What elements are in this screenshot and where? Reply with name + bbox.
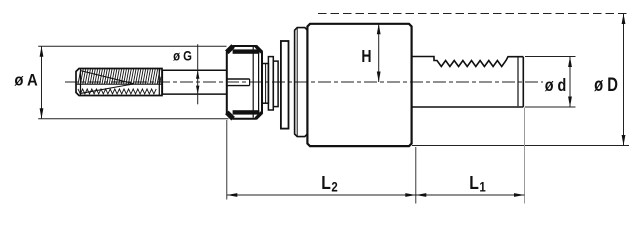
dimension L2 — [227, 120, 416, 204]
collet nut — [227, 46, 262, 119]
ring collar — [295, 28, 308, 137]
flange disc — [281, 41, 289, 129]
dimension ø D — [318, 14, 629, 146]
svg-text:L2: L2 — [321, 172, 337, 195]
main body — [307, 24, 411, 146]
svg-text:ø G: ø G — [173, 48, 192, 63]
dimension L1 — [416, 108, 525, 204]
centerline — [65, 81, 543, 83]
svg-text:L1: L1 — [469, 172, 485, 195]
dimension ø G — [197, 44, 199, 104]
spacer washer S2 — [268, 57, 273, 110]
spacer S3 — [273, 61, 278, 107]
svg-text:ø A: ø A — [14, 72, 37, 90]
neck cylinder — [162, 70, 227, 94]
dimension ø A — [38, 46, 228, 119]
threaded shank — [76, 69, 162, 96]
svg-text:ø d: ø d — [545, 76, 567, 96]
dimension H — [378, 24, 380, 82]
dimension ø d — [525, 57, 576, 108]
clamping shaft — [412, 57, 524, 108]
spacer collar S1 — [262, 64, 269, 104]
svg-text:ø D: ø D — [594, 74, 618, 95]
svg-text:H: H — [361, 47, 371, 67]
